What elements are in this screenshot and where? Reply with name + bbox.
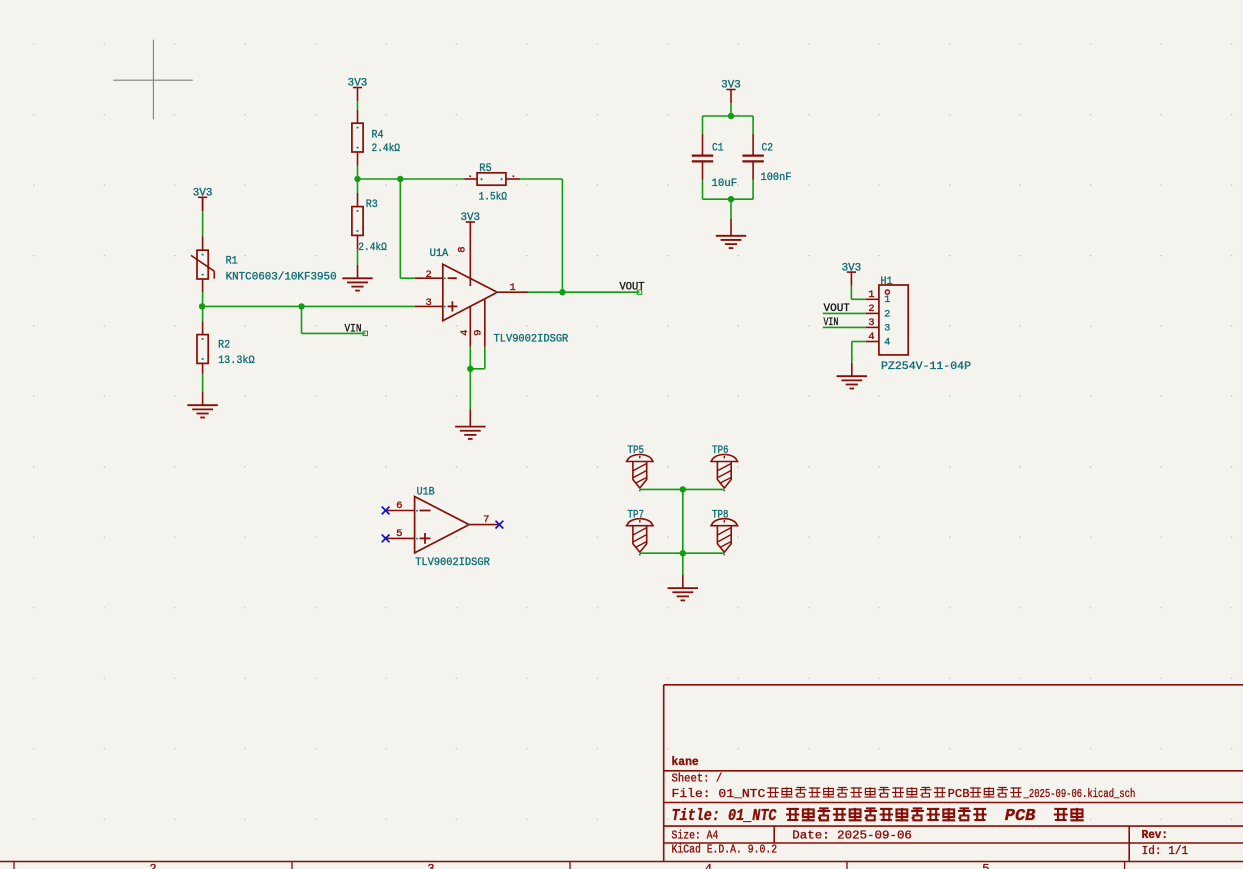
svg-text:Rev:: Rev:	[1142, 829, 1168, 842]
svg-text:kane: kane	[672, 756, 699, 769]
svg-text:2: 2	[868, 303, 874, 315]
svg-text:KiCad E.D.A. 9.0.2: KiCad E.D.A. 9.0.2	[672, 844, 778, 857]
svg-text:C2: C2	[762, 143, 774, 155]
svg-text:File: 01_NTC: File: 01_NTC	[672, 788, 766, 801]
svg-text:100nF: 100nF	[761, 172, 792, 184]
svg-text:4: 4	[884, 337, 890, 348]
svg-text:KNTC0603/10KF3950: KNTC0603/10KF3950	[226, 271, 337, 283]
svg-text:8: 8	[457, 246, 469, 252]
svg-text:H1: H1	[880, 276, 893, 288]
svg-text:TP7: TP7	[628, 509, 645, 521]
svg-text:2: 2	[884, 309, 890, 320]
svg-text:U1B: U1B	[417, 487, 435, 499]
svg-text:R2: R2	[218, 340, 230, 352]
svg-text:R4: R4	[372, 130, 384, 142]
svg-text:R1: R1	[226, 256, 238, 268]
svg-text:VOUT: VOUT	[620, 281, 645, 293]
svg-text:3: 3	[884, 323, 890, 334]
svg-text:TP8: TP8	[712, 509, 729, 521]
svg-text:PCB: PCB	[1005, 806, 1036, 825]
svg-text:Sheet: /: Sheet: /	[672, 773, 723, 786]
svg-text:U1A: U1A	[430, 248, 449, 260]
svg-text:9: 9	[472, 330, 484, 336]
svg-text:_2025-09-06.kicad_sch: _2025-09-06.kicad_sch	[1023, 788, 1135, 801]
svg-text:7: 7	[483, 514, 489, 526]
svg-text:1: 1	[884, 295, 890, 306]
svg-text:TLV9002IDSGR: TLV9002IDSGR	[494, 333, 569, 345]
svg-text:Date: 2025-09-06: Date: 2025-09-06	[792, 829, 912, 842]
svg-text:TP5: TP5	[628, 445, 645, 457]
svg-text:4: 4	[459, 330, 471, 336]
svg-text:1: 1	[868, 289, 874, 301]
svg-text:2.4kΩ: 2.4kΩ	[358, 242, 387, 254]
svg-text:1: 1	[509, 282, 515, 294]
svg-text:PCB: PCB	[948, 788, 970, 801]
svg-text:5: 5	[982, 862, 989, 869]
svg-text:TP6: TP6	[712, 445, 729, 457]
svg-text:2: 2	[149, 862, 156, 869]
svg-text:R3: R3	[366, 199, 378, 211]
svg-text:4: 4	[868, 331, 874, 343]
svg-text:1.5kΩ: 1.5kΩ	[479, 191, 508, 203]
svg-text:2: 2	[426, 269, 432, 281]
svg-text:2.4kΩ: 2.4kΩ	[372, 143, 401, 155]
svg-text:5: 5	[396, 528, 402, 540]
svg-text:Size: A4: Size: A4	[672, 829, 719, 842]
svg-text:Id: 1/1: Id: 1/1	[1142, 845, 1189, 858]
svg-text:3: 3	[868, 317, 874, 329]
svg-text:3: 3	[426, 297, 432, 309]
svg-text:13.3kΩ: 13.3kΩ	[218, 355, 255, 367]
svg-text:10uF: 10uF	[712, 178, 738, 190]
svg-text:Title: 01_NTC: Title: 01_NTC	[672, 806, 777, 825]
svg-text:6: 6	[396, 500, 402, 512]
svg-text:3: 3	[427, 862, 434, 869]
svg-text:R5: R5	[479, 163, 491, 175]
svg-text:VIN: VIN	[345, 323, 362, 335]
svg-text:TLV9002IDSGR: TLV9002IDSGR	[415, 557, 490, 569]
svg-text:4: 4	[705, 862, 712, 869]
svg-text:PZ254V-11-04P: PZ254V-11-04P	[881, 361, 971, 373]
svg-text:C1: C1	[712, 143, 724, 155]
